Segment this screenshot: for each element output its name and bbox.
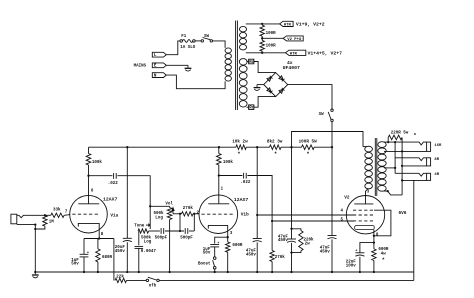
- V2 control grid dashes: [353, 220, 374, 222]
- junction V1b plate / coupling cap: [218, 174, 220, 176]
- wire plate to coupling cap: [89, 175, 113, 177]
- junction 4R sleeve bus: [401, 179, 403, 181]
- svg-text:500pF: 500pF: [180, 237, 193, 241]
- wire grid node down: [193, 214, 195, 231]
- wire 8R tip line: [395, 158, 427, 161]
- svg-text:V2: V2: [344, 195, 350, 200]
- wire humdinger junction: [261, 36, 263, 40]
- ground (bridge): [256, 85, 258, 87]
- wire HT bottom tap (red): [247, 106, 249, 108]
- resistor 220k 2w bleeder: [292, 229, 301, 231]
- junction cathode lead: [98, 237, 100, 239]
- svg-text:V2 P+8: V2 P+8: [287, 38, 302, 42]
- svg-text:nfb: nfb: [149, 283, 157, 288]
- V2 cathode: [355, 226, 375, 230]
- junction humdinger: [261, 37, 263, 39]
- junction V1b cathode branch: [227, 236, 229, 238]
- wire V2 screen (pin 4): [257, 214, 354, 216]
- junction reservoir ground: [331, 271, 333, 273]
- svg-text:F1: F1: [181, 35, 187, 39]
- svg-text:33k: 33k: [53, 208, 61, 213]
- diode D1 (4x UF4007): [267, 77, 271, 81]
- svg-text:10k 2w: 10k 2w: [232, 139, 248, 144]
- resistor 270k (to V1b grid): [180, 213, 182, 215]
- junction 0.0047 ground: [138, 271, 140, 273]
- V1a grid dashes: [72, 213, 98, 215]
- capacitor 500pF (grid side): [184, 228, 186, 234]
- junction bleeder bottom: [290, 251, 292, 253]
- resistor 100R (humdinger upper): [260, 25, 264, 36]
- jack 16R body: [427, 142, 431, 151]
- wire bleeder node down: [291, 147, 293, 229]
- V2 screen dashes: [353, 214, 374, 216]
- wire bridge plus to standby switch: [288, 85, 332, 109]
- label Rd bottom: [249, 105, 254, 110]
- potentiometer Tone 500k Log: [138, 229, 149, 233]
- junction bleeder top: [290, 228, 292, 230]
- junction grid node: [193, 213, 195, 215]
- wire boost to ground: [214, 269, 216, 272]
- ground rail: [35, 271, 414, 273]
- resistor 270k (V2 grid leak): [271, 221, 273, 251]
- svg-text:V1b: V1b: [241, 213, 249, 218]
- switch SW (standby): [331, 109, 333, 111]
- transformer T1 HT winding: [239, 59, 247, 65]
- wire HT top tap to bridge: [254, 62, 276, 73]
- svg-text:270k: 270k: [275, 255, 286, 260]
- capacitor 47uF 450v (screen node): [256, 147, 258, 238]
- svg-text:V1+4+5, V2+7: V1+4+5, V2+7: [308, 50, 343, 56]
- wire OT secondary bottom to bus2: [384, 191, 402, 195]
- wire V1b plate to second coupling cap: [219, 175, 243, 177]
- transformer T1 heater winding: [240, 26, 247, 32]
- svg-text:270k: 270k: [183, 206, 194, 211]
- wire 8R sleeve: [402, 165, 427, 167]
- svg-text:V1a: V1a: [110, 214, 118, 219]
- bridge rectifier frame: [264, 73, 288, 97]
- wire coupling cap to volume: [117, 176, 150, 229]
- wire V2 grid (pin 5): [272, 220, 354, 222]
- junction tip/1M: [44, 214, 46, 216]
- resistor 1M: [43, 215, 47, 226]
- potentiometer Vol 500k Log: [169, 206, 171, 207]
- svg-text:100R: 100R: [266, 45, 277, 49]
- resistor 10k 2w: [236, 145, 246, 150]
- junction B+ node 4 (preamp): [218, 146, 220, 148]
- svg-text:100k: 100k: [223, 160, 234, 165]
- ground (mains earth): [187, 65, 189, 67]
- V1a plate bar: [78, 203, 99, 205]
- junction bleeder ground: [290, 271, 292, 273]
- switch Boost: [213, 257, 216, 260]
- svg-text:600R: 600R: [232, 244, 243, 248]
- svg-text:6V6: 6V6: [399, 211, 407, 216]
- svg-text:100R 5W: 100R 5W: [299, 139, 317, 144]
- junction 16R sleeve bus: [401, 150, 403, 152]
- B+ rail left segment: [89, 146, 236, 148]
- wire switch to transformer primary top: [213, 41, 226, 48]
- svg-text:100k: 100k: [92, 160, 103, 165]
- wire E to chassis ground: [166, 64, 188, 66]
- wire node A down to cap junction: [179, 214, 181, 231]
- wire coupling to V2 grid: [247, 176, 272, 222]
- V1b plate lead: [218, 165, 220, 204]
- transformer T1 core: [235, 21, 237, 111]
- wire common tap / 16R sleeve: [384, 150, 427, 152]
- junction vol ground: [168, 271, 170, 273]
- B+ rail segment 100R-standby: [314, 146, 332, 148]
- wire 4R sleeve (with NFB takeoff): [402, 179, 427, 181]
- svg-text:*: *: [413, 132, 416, 139]
- junction heater bottom / 100R: [261, 52, 263, 54]
- V1a cathode: [78, 223, 99, 238]
- connector N (mains neutral): [152, 73, 166, 78]
- svg-text:Boost: Boost: [198, 262, 211, 266]
- wire 500pF to grid node: [189, 230, 194, 232]
- junction V1a plate / coupling cap: [87, 175, 89, 177]
- svg-text:SW: SW: [319, 113, 325, 117]
- pentode V2 envelope: [346, 196, 384, 234]
- bus1 (8R/4R tip feed): [394, 142, 396, 173]
- V1a plate lead: [88, 165, 90, 204]
- svg-text:+: +: [355, 249, 357, 253]
- wire V1a cathode node: [84, 238, 114, 240]
- wire HT top tap (red): [247, 61, 249, 63]
- junction OT secondary bottom: [387, 190, 389, 192]
- resistor 22k (NFB): [115, 278, 127, 282]
- junction B+ node 1 (standby): [331, 146, 333, 148]
- resistor 33k grid stopper: [51, 213, 64, 217]
- svg-text:500k: 500k: [154, 211, 165, 216]
- tone wiper arrow mark: [146, 224, 149, 226]
- svg-text:Vol: Vol: [165, 202, 173, 207]
- junction 270k V2 ground: [271, 271, 273, 273]
- svg-text:*: *: [306, 151, 309, 158]
- wire OT primary bottom to V2 plate: [366, 189, 368, 204]
- svg-text:100v: 100v: [346, 264, 357, 268]
- svg-text:MAINS: MAINS: [134, 65, 147, 69]
- junction 20uF filter tap: [126, 146, 128, 148]
- resistor 600R (V1b cathode): [226, 242, 230, 252]
- svg-text:*: *: [382, 256, 385, 263]
- V1b plate bar: [208, 203, 229, 205]
- svg-text:8R: 8R: [434, 158, 439, 162]
- svg-text:1M: 1M: [49, 220, 55, 224]
- wire NFB to cathode (crosses ground rail): [113, 239, 115, 281]
- connector HTR top: [280, 21, 294, 26]
- capacitor .022 (second coupling): [243, 173, 245, 179]
- junction 22uF ground: [359, 271, 361, 273]
- V2 plate bar: [354, 203, 373, 205]
- resistor 100R 5W: [302, 145, 315, 150]
- junction 47uF screen ground: [256, 271, 258, 273]
- junction B+ node 3 (screen): [256, 146, 258, 148]
- svg-text:2w: 2w: [305, 243, 311, 247]
- diode D4: [279, 89, 283, 93]
- svg-text:*: *: [237, 151, 240, 158]
- wire NFB line to speaker jack: [159, 279, 414, 281]
- input jack sleeve wire: [17, 224, 36, 226]
- wire L to fuse: [166, 41, 180, 55]
- vol wiper arrow: [173, 213, 180, 215]
- wire heater top tap: [246, 23, 280, 25]
- svg-text:+: +: [87, 251, 89, 255]
- wire 4R tip line: [395, 173, 427, 176]
- resistor 100R (humdinger lower): [260, 40, 264, 51]
- junction 20uF ground: [126, 271, 128, 273]
- diode D3: [267, 88, 271, 92]
- junction bus1 top: [394, 141, 396, 143]
- svg-text:500pF: 500pF: [155, 237, 168, 241]
- svg-text:16R: 16R: [434, 144, 442, 148]
- fuse F1: [180, 40, 183, 43]
- junction beam plate tie: [373, 235, 375, 237]
- connector HTR bottom: [286, 50, 306, 55]
- svg-text:8k2 3w: 8k2 3w: [267, 139, 283, 144]
- junction node A bottom: [179, 230, 181, 232]
- bus2 (ground bus): [401, 137, 403, 195]
- svg-text:12AX7: 12AX7: [103, 197, 118, 203]
- B+ rail segment 10k-8k2: [246, 146, 269, 148]
- V1b cathode: [208, 225, 227, 242]
- junction sleeve line: [34, 223, 36, 225]
- resistor 100k (V1a plate load): [88, 147, 90, 153]
- wire N to transformer primary bottom: [166, 75, 225, 89]
- capacitor .022 (first coupling): [113, 173, 115, 179]
- triode V1a envelope: [70, 195, 108, 233]
- svg-text:450v: 450v: [320, 251, 331, 255]
- V2 beam grid dashes: [353, 209, 374, 211]
- svg-text:1A SLO: 1A SLO: [180, 46, 196, 50]
- svg-text:UF4007: UF4007: [283, 65, 300, 71]
- svg-text:.022: .022: [240, 181, 251, 185]
- wire B+ node2 to output transformer: [292, 132, 364, 148]
- capacitor 20uF 450v: [126, 147, 128, 238]
- junction 600R 4w ground: [373, 271, 375, 273]
- capacitor 47uF 450v (reservoir): [331, 147, 333, 235]
- input jack body: [11, 214, 17, 224]
- jack 8R body: [427, 158, 431, 166]
- svg-text:.022: .022: [108, 182, 119, 186]
- input jack tip contact: [17, 215, 45, 217]
- svg-text:Rd: Rd: [249, 106, 254, 111]
- resistor 220R 5w (load): [387, 137, 389, 142]
- resistor 680R (V1a cathode): [97, 239, 99, 249]
- capacitor 0.0047 (tone): [138, 231, 140, 245]
- junction heater top / 100R: [261, 23, 263, 25]
- svg-text:450v: 450v: [278, 239, 289, 243]
- wire 22k to nfb switch: [127, 279, 147, 281]
- output transformer primary winding: [363, 146, 367, 148]
- wire between 500pF caps: [165, 230, 184, 232]
- capacitor 1uF 50v (V1a bypass): [83, 239, 85, 254]
- wire tip to 33k: [45, 214, 51, 216]
- switch SW (mains): [201, 40, 203, 42]
- junction vol feed: [149, 205, 151, 207]
- V1b grid dashes: [202, 213, 235, 215]
- connector L (mains live): [152, 52, 166, 57]
- wire V2 cathode branch to 22uF: [360, 243, 374, 253]
- junction 1uF V1a ground: [83, 271, 85, 273]
- resistor 600R 4w (V2 cathode): [372, 249, 376, 261]
- junction 680R ground: [97, 271, 99, 273]
- svg-text:100R: 100R: [266, 32, 277, 36]
- capacitor 1uF 50v (V1b bypass): [210, 244, 219, 246]
- wire tone to 500pF: [149, 230, 160, 232]
- junction 8R sleeve bus: [401, 165, 403, 167]
- capacitor 47uF 450v (node2): [291, 229, 293, 239]
- wire fuse to switch: [195, 40, 201, 42]
- transformer T1 primary winding: [225, 48, 231, 53]
- svg-text:Tone: Tone: [134, 225, 145, 229]
- junction node A (vol wiper): [179, 213, 181, 215]
- junction boost ground: [214, 271, 216, 273]
- output transformer core: [374, 138, 376, 196]
- resistor 100k (V1b plate load): [218, 147, 220, 153]
- wire standby switch to B+ rail: [331, 122, 333, 148]
- svg-text:Log: Log: [155, 217, 163, 221]
- svg-text:680R: 680R: [102, 256, 113, 260]
- svg-text:Rd: Rd: [249, 60, 254, 65]
- svg-text:SW: SW: [204, 35, 210, 39]
- svg-text:12AX7: 12AX7: [234, 197, 249, 203]
- capacitor 500pF (tone side): [160, 228, 162, 234]
- wire 33k to V1a grid pin 7: [64, 214, 70, 217]
- beam plate connection: [374, 210, 391, 236]
- triode V1b envelope: [199, 195, 238, 234]
- svg-text:HTR: HTR: [284, 23, 292, 27]
- wire HT bottom tap to bridge: [254, 97, 276, 108]
- svg-text:HTR: HTR: [290, 52, 298, 56]
- switch nfb: [146, 279, 148, 281]
- svg-text:220R 5w: 220R 5w: [391, 131, 409, 135]
- output transformer secondary winding: [378, 142, 386, 148]
- ground (main): [34, 271, 36, 273]
- svg-text:*: *: [274, 151, 277, 158]
- junction sleeve/1M: [34, 228, 36, 230]
- connector V2 P+8 (heater reference): [283, 36, 303, 41]
- svg-text:0.0047: 0.0047: [141, 250, 157, 254]
- capacitor 22uF 100v: [355, 252, 364, 254]
- wire bridge minus to ground: [257, 84, 264, 86]
- svg-text:4R: 4R: [434, 173, 439, 177]
- junction 600R V1b ground: [227, 271, 229, 273]
- junction 220R left: [387, 141, 389, 143]
- wire 8R tap: [384, 167, 395, 169]
- junction screen node: [256, 214, 258, 216]
- label Rd top: [249, 59, 254, 64]
- junction cathode branch (V2): [373, 241, 375, 243]
- svg-text:+: +: [217, 242, 219, 246]
- junction 8R tap bus1: [394, 167, 396, 169]
- svg-text:600R: 600R: [378, 248, 389, 252]
- jack 4R body: [427, 173, 431, 180]
- junction V2 grid node: [271, 220, 273, 222]
- junction B+ node 2: [290, 146, 292, 148]
- svg-text:50v: 50v: [203, 252, 211, 256]
- svg-text:220k: 220k: [304, 237, 315, 242]
- resistor 8k2 3w: [270, 145, 282, 150]
- svg-text:450v: 450v: [115, 250, 126, 254]
- svg-text:Log: Log: [144, 241, 152, 245]
- wire heater bottom tap: [246, 52, 286, 54]
- V2 cathode lead: [373, 230, 375, 249]
- connector E (mains earth): [152, 63, 166, 68]
- diode D2: [279, 76, 283, 80]
- svg-text:V1+9, V2+2: V1+9, V2+2: [296, 21, 325, 27]
- wire cathode branch to 1uF: [215, 237, 228, 243]
- B+ rail segment 8k2-100R: [281, 146, 302, 148]
- svg-text:50v: 50v: [71, 263, 79, 267]
- svg-text:450v: 450v: [246, 253, 257, 257]
- wire 16R tap / tip line: [384, 142, 427, 145]
- svg-text:22k: 22k: [116, 274, 124, 279]
- wire to volume top: [150, 205, 169, 207]
